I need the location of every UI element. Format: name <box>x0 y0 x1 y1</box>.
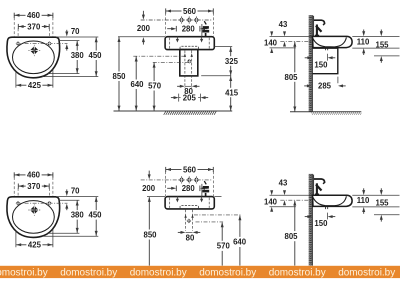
rim top extension right BR <box>352 194 399 196</box>
drain centerline BM <box>196 221 224 223</box>
extension line rim top BL <box>56 196 98 198</box>
semi-pedestal front view TM <box>180 50 198 76</box>
overflow slot BM <box>180 206 199 209</box>
dim 200 BM <box>142 171 156 194</box>
drain bolt lines BM <box>185 210 187 231</box>
svg-text:380: 380 <box>71 211 85 220</box>
svg-text:150: 150 <box>314 60 328 69</box>
dim 110 TR <box>357 30 370 56</box>
right mounting hole BL <box>47 201 52 206</box>
drain stub BR <box>325 206 327 209</box>
svg-text:285: 285 <box>318 82 332 91</box>
dim 370 TL <box>18 22 49 31</box>
basin outline top view BL <box>7 197 60 238</box>
dim 640 TM <box>130 57 144 111</box>
svg-text:805: 805 <box>284 232 298 241</box>
svg-text:domostroi.by: domostroi.by <box>130 267 187 278</box>
rim extension line left BM <box>147 196 165 198</box>
dim 43 TR <box>279 20 288 47</box>
svg-text:70: 70 <box>71 186 80 195</box>
svg-text:domostroi.by: domostroi.by <box>338 267 395 278</box>
rim extension line TR <box>270 36 313 38</box>
dim 43 BR <box>279 179 288 206</box>
svg-text:425: 425 <box>28 241 42 250</box>
hole centerline BL <box>17 202 68 204</box>
basin side profile BR <box>313 195 353 206</box>
svg-text:460: 460 <box>27 11 41 20</box>
dim 285 TR <box>304 77 346 91</box>
dim 460 BL <box>14 171 53 180</box>
extension line rim top TL <box>56 36 98 38</box>
svg-text:domostroi.by: domostroi.by <box>199 267 256 278</box>
faucet holes centerline BM <box>141 179 213 181</box>
extension lines 425 BL <box>15 231 17 247</box>
extension line basin bottom TL <box>42 76 98 78</box>
svg-text:205: 205 <box>183 93 197 102</box>
mixer tap side view TR <box>314 16 325 37</box>
svg-text:570: 570 <box>217 242 231 251</box>
dim 200 TM <box>137 11 151 45</box>
dim 110 BR <box>357 188 370 214</box>
floor line TR <box>290 111 361 113</box>
left mounting hole BL <box>16 201 21 206</box>
watermark band <box>0 266 400 278</box>
hole centerline TR <box>280 40 312 42</box>
drain level line BR <box>374 214 400 216</box>
svg-text:200: 200 <box>137 24 151 33</box>
dim 80 BM <box>178 231 201 243</box>
mixer tap front view BM <box>202 181 209 197</box>
wall hatching TR <box>309 15 313 112</box>
svg-text:70: 70 <box>71 27 80 36</box>
svg-text:450: 450 <box>88 211 102 220</box>
dim 425 TL <box>16 81 52 90</box>
dim 155 TR <box>375 30 389 63</box>
basin side profile TR <box>313 36 353 47</box>
svg-text:domostroi.by: domostroi.by <box>60 267 117 278</box>
svg-text:640: 640 <box>130 80 144 89</box>
faucet hole symbol BL <box>33 205 35 216</box>
basin bottom extension right TR <box>352 47 399 49</box>
dim 450 BL <box>88 197 102 236</box>
dim 560 BM <box>166 165 214 174</box>
svg-text:110: 110 <box>357 37 370 46</box>
svg-text:domostroi.by: domostroi.by <box>269 267 326 278</box>
extension lines 560 TM <box>165 13 167 36</box>
wall line BR <box>311 174 313 266</box>
dim 70 BL <box>65 191 68 196</box>
rim extension line BR <box>270 194 313 196</box>
hanger bolts TM <box>176 36 203 42</box>
dim 140 BR <box>264 190 278 212</box>
dim 205 TM <box>171 93 208 102</box>
svg-text:850: 850 <box>143 230 157 239</box>
svg-text:570: 570 <box>148 82 162 91</box>
basin front view outline BM <box>165 197 214 209</box>
dim 850 BM <box>143 197 157 266</box>
dim 155 BR <box>375 188 389 221</box>
dim 570 TM <box>148 63 162 111</box>
ground line TM <box>114 110 233 112</box>
extension lines 460 BL <box>13 177 15 196</box>
overflow slot TM <box>180 46 199 49</box>
rim extension line right BM <box>214 196 221 198</box>
svg-text:640: 640 <box>233 238 247 247</box>
hole centerline TL <box>17 43 68 45</box>
dim 380 TL <box>71 41 85 73</box>
svg-text:415: 415 <box>225 88 239 97</box>
basin front view outline TM <box>165 37 214 50</box>
basin outline top view TL <box>7 37 60 78</box>
dim 70 TL <box>65 32 68 37</box>
svg-text:domostroi.by: domostroi.by <box>0 267 48 278</box>
faucet hole symbol TL <box>33 45 35 56</box>
wall line TR <box>311 15 313 112</box>
svg-text:140: 140 <box>264 39 278 48</box>
dim 805 BR <box>284 201 298 266</box>
dim 640 BM <box>233 215 247 265</box>
svg-text:200: 200 <box>142 184 156 193</box>
svg-text:110: 110 <box>357 196 370 205</box>
lower extension line 140 BR <box>270 206 296 208</box>
extension lines 370 TL <box>17 29 19 42</box>
svg-text:80: 80 <box>186 233 195 242</box>
faucet holes centerline TM <box>141 19 213 21</box>
svg-text:560: 560 <box>183 165 197 174</box>
supply centerline TM <box>133 55 186 57</box>
extension line bowl bottom TL <box>48 73 80 75</box>
svg-text:380: 380 <box>71 51 85 60</box>
dim 570 BM <box>217 222 231 265</box>
drain centerline TM <box>153 61 192 63</box>
extension line basin bottom BL <box>42 235 98 237</box>
svg-text:325: 325 <box>225 57 239 66</box>
faucet holes symbols BM <box>179 176 199 183</box>
basin bottom extension right BR <box>352 206 399 208</box>
drain stub TR <box>325 48 327 51</box>
dim 280 BM <box>167 184 207 193</box>
svg-text:425: 425 <box>28 81 42 90</box>
lower extension line 140 TR <box>270 47 296 49</box>
extension lines 460 TL <box>13 18 15 37</box>
dim 460 TL <box>14 11 53 20</box>
supply centerline BM <box>194 214 242 216</box>
basin inner seams TM <box>169 38 171 49</box>
left mounting hole TL <box>16 41 21 46</box>
svg-text:370: 370 <box>27 22 41 31</box>
svg-text:450: 450 <box>88 51 102 60</box>
dim 370 BL <box>18 182 49 191</box>
dim 150 TR <box>305 54 336 70</box>
extension line bowl top BL <box>59 199 80 201</box>
rim extension line left TM <box>118 36 165 38</box>
extension lines 425 TL <box>15 72 17 88</box>
dim 380 BL <box>71 201 85 233</box>
dim 805 TR <box>284 42 298 112</box>
drain level line TR <box>374 55 400 57</box>
hanger bolts BM <box>176 196 203 202</box>
inner bowl ellipse BL <box>13 201 55 234</box>
mixer tap side view BR <box>314 175 325 196</box>
svg-text:805: 805 <box>284 73 298 82</box>
svg-text:460: 460 <box>27 171 41 180</box>
extension lines 560 BM <box>165 171 167 196</box>
svg-text:850: 850 <box>112 72 126 81</box>
dim 425 BL <box>16 241 52 250</box>
drain hole symbol BM <box>187 219 192 224</box>
wall hatching BR <box>309 174 313 266</box>
dim 560 TM <box>166 7 214 16</box>
svg-text:155: 155 <box>375 198 389 207</box>
dim 80 TM <box>177 85 199 96</box>
inner bowl ellipse TL <box>13 41 55 74</box>
svg-text:560: 560 <box>183 7 197 16</box>
pedestal bottom extension right TM <box>201 75 231 77</box>
watermark text domostroi.by <box>0 267 400 278</box>
dim 140 TR <box>264 31 278 53</box>
extension line bowl bottom BL <box>48 232 80 234</box>
right mounting hole TL <box>47 41 52 46</box>
drain bolt lines TM <box>184 51 186 89</box>
mixer tap front view TM <box>202 21 209 37</box>
floor hatching TR <box>311 112 361 115</box>
dim 850 TM <box>112 37 126 111</box>
extension lines 370 BL <box>17 188 19 201</box>
basin bottom extension right TM <box>214 46 232 48</box>
svg-text:155: 155 <box>375 40 389 49</box>
dim 325 TM <box>225 47 239 76</box>
semi-pedestal side view TR <box>313 48 338 73</box>
svg-text:280: 280 <box>182 184 196 193</box>
ground hatching TM <box>164 111 217 115</box>
basin inner seams BM <box>169 198 171 208</box>
dim 415 TM <box>225 76 239 111</box>
svg-text:370: 370 <box>27 182 41 191</box>
svg-text:43: 43 <box>279 179 288 188</box>
svg-text:43: 43 <box>279 20 288 29</box>
dim 150 BR <box>305 213 336 229</box>
drain hole symbol TM <box>187 59 192 64</box>
hole centerline BR <box>280 199 312 201</box>
svg-text:280: 280 <box>182 25 196 34</box>
dim 280 TM <box>167 25 207 34</box>
svg-text:150: 150 <box>314 219 328 228</box>
faucet holes symbols TM <box>179 16 199 23</box>
rim top extension right TR <box>352 35 399 37</box>
dim 450 TL <box>88 37 102 76</box>
svg-text:140: 140 <box>264 197 278 206</box>
extension line bowl top TL <box>59 40 80 42</box>
